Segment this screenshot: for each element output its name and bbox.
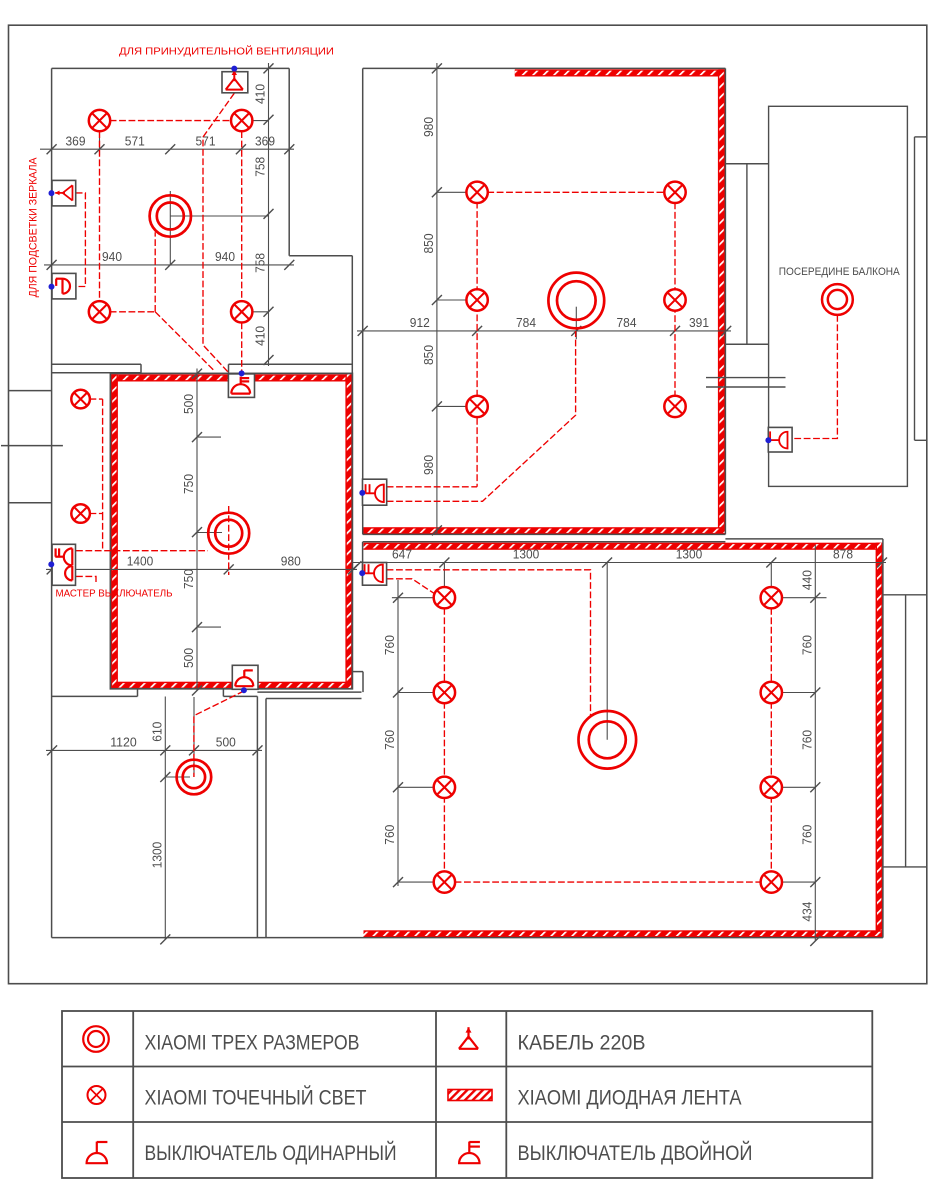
svg-text:760: 760 (801, 635, 815, 655)
wall: window to balcony (725, 163, 768, 165)
wall: bathroom bottom left part (52, 363, 141, 365)
wall: right window lower (905, 595, 907, 867)
svg-text:ВЫКЛЮЧАТЕЛЬ ДВОЙНОЙ: ВЫКЛЮЧАТЕЛЬ ДВОЙНОЙ (518, 1140, 753, 1165)
wall: hallway to room jamb (352, 671, 363, 673)
svg-text:1300: 1300 (676, 548, 703, 562)
light: bathroom spot L3 (89, 301, 110, 322)
dimension line 1400/980 (46, 568, 357, 570)
wall: closet top (289, 255, 352, 257)
svg-text:440: 440 (801, 570, 815, 590)
svg-text:1400: 1400 (127, 555, 154, 569)
wall: balcony door threshold (706, 377, 786, 379)
wire: br row4 (455, 881, 761, 883)
LED strip: bedroom perimeter (111, 374, 353, 381)
light: tr spot R1C2 (664, 182, 685, 203)
wall: bottom-right room left top part (362, 542, 364, 586)
svg-text:750: 750 (182, 569, 196, 589)
light: bottom-left ceiling lamp (177, 760, 212, 795)
svg-text:XIAOMI ТРЕХ РАЗМЕРОВ: XIAOMI ТРЕХ РАЗМЕРОВ (145, 1031, 360, 1055)
legend icon: switch double (459, 1142, 480, 1164)
svg-text:760: 760 (383, 730, 397, 750)
extension: br col stubs top (443, 563, 445, 592)
LED strip: bottom-right room right (876, 543, 883, 938)
extension: br center lamp line (606, 563, 608, 740)
extension: br row stubs left (392, 597, 434, 599)
wire: br col2 (770, 608, 772, 882)
wire: bathroom lamp junction (110, 311, 156, 313)
svg-text:ПОСЕРЕДИНЕ БАЛКОНА: ПОСЕРЕДИНЕ БАЛКОНА (779, 266, 901, 278)
extension: bl vertical 194 (193, 697, 195, 777)
dimension line right 440/760s/434 vertical (814, 545, 816, 941)
wire: br switch upper to lamp (387, 570, 591, 716)
svg-text:940: 940 (102, 250, 122, 264)
box: bedroom top switch double (228, 374, 254, 398)
extension: bathroom light4 to dim (252, 311, 269, 313)
svg-text:980: 980 (281, 555, 301, 569)
svg-text:410: 410 (254, 326, 268, 346)
svg-text:758: 758 (254, 157, 268, 177)
svg-text:500: 500 (216, 736, 236, 750)
extension: bathroom light2 to dim (252, 120, 269, 122)
svg-text:878: 878 (833, 548, 853, 562)
box: balcony switch single (768, 427, 792, 452)
wall: top-right room right (724, 68, 726, 534)
light: br spot c2r2 (761, 682, 782, 703)
light: br spot c1r3 (434, 777, 455, 798)
light: br spot c1r1 (434, 587, 455, 608)
wire: bathroom row1 (110, 120, 232, 122)
wall: bathroom bottom right part (229, 363, 353, 365)
legend icon: switch single (87, 1142, 108, 1164)
wire: bedroom lamp centerline (228, 506, 230, 575)
svg-text:647: 647 (392, 548, 412, 562)
svg-text:760: 760 (383, 635, 397, 655)
dimension line 369/571/571/369 (40, 148, 294, 150)
wire: master switch to bedroom lamp (76, 550, 208, 552)
light: bathroom spot L2 (231, 110, 252, 131)
LED strip: bottom-right room bottom (364, 930, 883, 937)
light: tr ceiling lamp (548, 273, 604, 329)
wall: bedroom outline (110, 373, 352, 688)
box: bottom-right room switch double (363, 563, 387, 586)
dimension line 940/940 (44, 264, 294, 266)
wall: left side stubs (9, 390, 52, 392)
extension: br row stubs right (782, 597, 827, 599)
svg-text:410: 410 (254, 84, 268, 104)
svg-text:850: 850 (422, 234, 436, 254)
legend table (62, 1011, 872, 1178)
light: tr spot R2C2 (664, 289, 685, 310)
svg-text:760: 760 (383, 825, 397, 845)
svg-text:980: 980 (422, 455, 436, 475)
extension: bedroom tick stubs (197, 436, 221, 438)
box: master switch double (52, 544, 75, 585)
light: br ceiling lamp (579, 711, 637, 769)
light: balcony ceiling lamp (822, 284, 853, 315)
wire: bedroom bottom switch to bl lamp (194, 691, 244, 777)
wall: mid vertical right face (362, 68, 364, 534)
svg-text:758: 758 (254, 253, 268, 273)
svg-text:КАБЕЛЬ 220В: КАБЕЛЬ 220В (518, 1031, 646, 1055)
wire: corridor lights (90, 398, 103, 400)
svg-text:391: 391 (689, 316, 709, 330)
light: corridor spot L6 (71, 504, 90, 523)
dimension line 980/850/850/980 vertical (436, 63, 438, 534)
svg-text:784: 784 (617, 316, 637, 330)
svg-text:571: 571 (125, 134, 145, 148)
dimension line left 760s vertical (397, 580, 399, 886)
wire: tr switch lower to lamp (387, 331, 576, 501)
light: tr spot R1C1 (466, 182, 487, 203)
dimension line 410/758/758/410 vertical (268, 63, 270, 366)
svg-text:ДЛЯ ПОДСВЕТКИ ЗЕРКАЛА: ДЛЯ ПОДСВЕТКИ ЗЕРКАЛА (28, 156, 40, 297)
wall: building bottom (52, 937, 883, 939)
wire: balcony lamp (792, 315, 837, 439)
light: bathroom ceiling lamp (150, 195, 191, 236)
wall: bathroom right (288, 68, 290, 255)
legend icon: lamp three sizes (83, 1026, 109, 1052)
svg-text:912: 912 (410, 316, 430, 330)
svg-text:750: 750 (182, 474, 196, 494)
wall: top-right room bottom (363, 533, 726, 535)
dimension line 647/1300/1300/878 (352, 562, 886, 564)
light: br spot c1r2 (434, 682, 455, 703)
svg-text:980: 980 (422, 117, 436, 137)
wall: entrance mark (1, 445, 63, 447)
wire: br col1 (443, 608, 445, 882)
extension: bl lamp stub (165, 776, 190, 778)
wall: right window upper (914, 137, 916, 440)
wire: tr col1 (476, 192, 478, 487)
svg-text:1300: 1300 (513, 548, 540, 562)
svg-text:571: 571 (196, 134, 216, 148)
svg-text:434: 434 (801, 902, 815, 922)
drawing frame border (9, 25, 927, 984)
dimension line 610/1300 vertical (164, 697, 166, 940)
light: corridor spot L5 (71, 390, 90, 409)
extension: bathroom circle cross (169, 191, 171, 265)
box: fan cable 220V (222, 72, 248, 93)
light: bathroom spot L1 (89, 110, 110, 131)
wire: tr switch upper to col1 (387, 486, 477, 488)
box: mirror cable 220V (52, 180, 76, 206)
svg-text:784: 784 (516, 316, 536, 330)
svg-text:760: 760 (801, 730, 815, 750)
extension: bathroom light1 down (99, 126, 101, 155)
box: mirror switch single (52, 273, 76, 299)
wire: br switch lower to col1 (387, 579, 437, 595)
wall: below bedroom with door gaps (52, 695, 138, 697)
svg-text:500: 500 (182, 394, 196, 414)
extension: tr lamp stub (575, 307, 577, 340)
extension: tr row3 stub (437, 405, 466, 407)
svg-text:760: 760 (801, 825, 815, 845)
svg-text:369: 369 (66, 134, 86, 148)
light: br spot c2r1 (761, 587, 782, 608)
svg-text:610: 610 (151, 722, 165, 742)
svg-text:XIAOMI ТОЧЕЧНЫЙ СВЕТ: XIAOMI ТОЧЕЧНЫЙ СВЕТ (145, 1085, 367, 1110)
dimension line 912/784/784/391 (357, 330, 731, 332)
wire: bathroom col light1-light3 (99, 131, 101, 301)
wire: bathroom col light2-light4-switch (241, 131, 243, 301)
svg-text:ВЫКЛЮЧАТЕЛЬ ОДИНАРНЫЙ: ВЫКЛЮЧАТЕЛЬ ОДИНАРНЫЙ (145, 1140, 397, 1165)
wall: building top-left segment (52, 67, 290, 69)
light: bathroom spot L4 (231, 301, 252, 322)
svg-text:XIAOMI ДИОДНАЯ ЛЕНТА: XIAOMI ДИОДНАЯ ЛЕНТА (518, 1086, 743, 1110)
wall: mid vertical left face (351, 256, 353, 374)
wall: building left side (51, 68, 53, 937)
light: tr spot R2C1 (466, 289, 487, 310)
LED strip: bottom-right room top (364, 543, 883, 550)
svg-text:1300: 1300 (151, 842, 165, 869)
wall: bottom-left room right / hallway left (256, 696, 258, 937)
light: tr spot R3C2 (664, 396, 685, 417)
wall: bottom-right room top (363, 541, 726, 543)
LED strip: top-right room right (718, 69, 725, 534)
light: tr spot R3C1 (466, 396, 487, 417)
wire: tr row1 (487, 191, 665, 193)
wire: tr col2 (674, 203, 676, 397)
svg-text:940: 940 (215, 250, 235, 264)
svg-text:1120: 1120 (110, 736, 137, 750)
wall: bottom-right room right (882, 539, 884, 938)
wire: mirror boxes (76, 193, 86, 287)
svg-text:500: 500 (182, 648, 196, 668)
svg-text:МАСТЕР ВЫКЛЮЧАТЕЛЬ: МАСТЕР ВЫКЛЮЧАТЕЛЬ (56, 589, 173, 600)
wall: balcony outline (769, 106, 908, 486)
legend icon: LED strip (448, 1090, 492, 1101)
svg-text:850: 850 (422, 345, 436, 365)
light: br spot c2r4 (761, 871, 782, 892)
extension: tr row1 stubs (437, 191, 466, 193)
legend icon: cable 220V (459, 1027, 478, 1049)
legend icon: spot light (88, 1086, 106, 1104)
svg-text:ДЛЯ ПРИНУДИТЕЛЬНОЙ ВЕНТИЛЯЦИИ: ДЛЯ ПРИНУДИТЕЛЬНОЙ ВЕНТИЛЯЦИИ (119, 45, 334, 58)
wire: fan cable (203, 93, 234, 372)
LED strip: top-right room bottom (363, 527, 725, 534)
extension: tr row2 stub (437, 299, 466, 301)
wire: master switch lower stub (76, 576, 96, 583)
LED strip: top-right room top (515, 69, 725, 76)
dimension line 500/750/750/500 vertical (196, 369, 198, 691)
light: br spot c1r4 (434, 871, 455, 892)
box: bedroom bottom switch single (232, 665, 258, 689)
light: br spot c2r3 (761, 777, 782, 798)
light: bedroom ceiling lamp (208, 513, 249, 554)
extension: bedroom lamp stub (197, 532, 222, 534)
box: top-right room switch double (363, 479, 387, 505)
dimension line 1120/500 (46, 749, 262, 751)
wall: building top-right segment (363, 67, 726, 69)
svg-text:369: 369 (255, 134, 275, 148)
